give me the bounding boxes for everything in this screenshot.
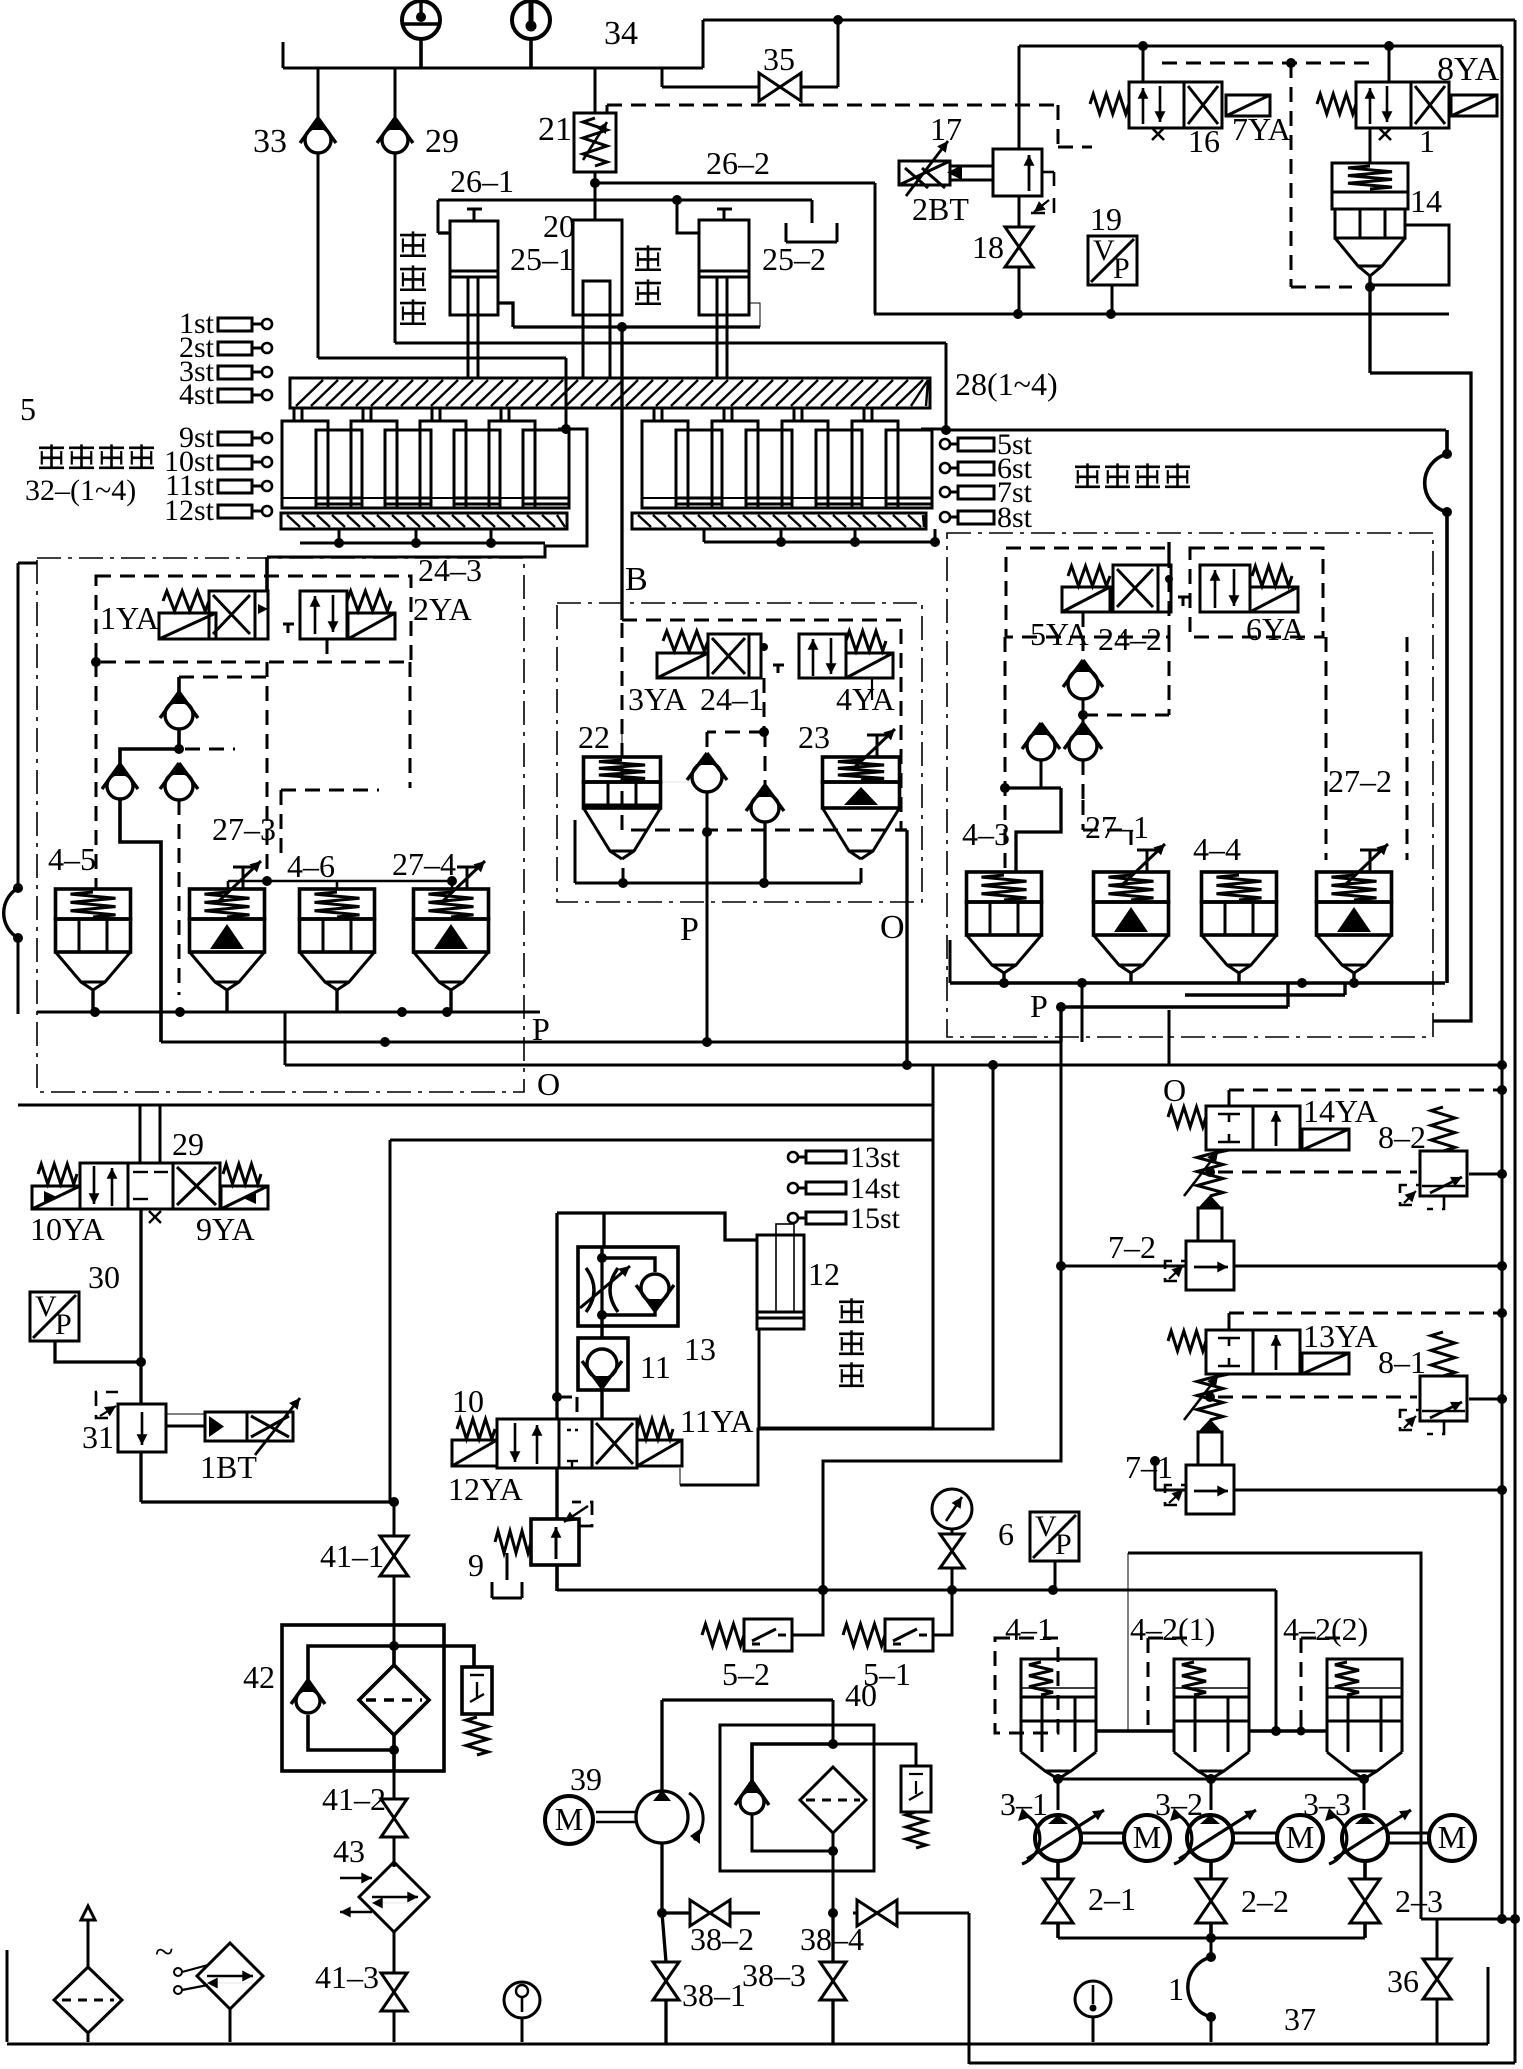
valve 2-3 bbox=[1350, 1861, 1443, 1938]
proportional pilot valve 2BT/17 bbox=[899, 111, 1054, 227]
valve 21 pilot relief bbox=[538, 68, 616, 183]
svg-text:6: 6 bbox=[998, 1516, 1014, 1552]
label eject cyl bbox=[839, 1298, 864, 1386]
svg-text:1: 1 bbox=[1168, 1971, 1184, 2007]
cartridge 4-6 bbox=[287, 848, 375, 990]
valve 24-3 dashed box bbox=[91, 576, 411, 667]
svg-text:2BT: 2BT bbox=[912, 191, 969, 227]
svg-text:5–2: 5–2 bbox=[722, 1656, 770, 1692]
wire 31 to rail1502 bbox=[141, 1452, 399, 1507]
tank gauge right bbox=[1075, 1981, 1111, 2042]
prop relief 7-1 pilot bbox=[1165, 1376, 1234, 1514]
valve 38-1 bbox=[653, 1913, 746, 2044]
label 7-1 bbox=[1125, 1449, 1173, 1485]
svg-text:M: M bbox=[1133, 1819, 1161, 1855]
small cushion cylinder bank (32-1..4) bbox=[282, 408, 569, 508]
svg-text:2–3: 2–3 bbox=[1395, 1883, 1443, 1919]
label 34 bbox=[604, 15, 638, 52]
solenoid valve 16 7YA bbox=[1090, 46, 1291, 159]
svg-text:4st: 4st bbox=[179, 378, 215, 411]
st labels 9-12 bbox=[164, 421, 272, 527]
dashed rail 8-2 top bbox=[1229, 1085, 1507, 1106]
pressure gauge 2 top bbox=[512, 1, 550, 68]
24-2 A-port wire bbox=[1167, 542, 1170, 565]
svg-text:O: O bbox=[537, 1066, 560, 1102]
svg-text:26–1: 26–1 bbox=[450, 163, 514, 199]
transducer 19 bbox=[1088, 201, 1137, 314]
svg-text:31: 31 bbox=[82, 1419, 114, 1455]
rod side line big bank bbox=[395, 343, 951, 435]
svg-text:29: 29 bbox=[425, 123, 459, 160]
pump suction rail bbox=[1053, 1774, 1369, 1810]
svg-text:B: B bbox=[625, 561, 648, 598]
left group boundary bbox=[37, 558, 524, 1092]
top-left supply rail bbox=[283, 20, 703, 68]
label big cushion cyl bbox=[1075, 463, 1190, 487]
svg-text:4–2(2): 4–2(2) bbox=[1283, 1611, 1368, 1647]
wire from 14 down right side bbox=[1368, 276, 1371, 373]
solenoid valve 1 8YA bbox=[1317, 46, 1500, 159]
O rail bbox=[285, 1012, 1507, 1102]
svg-text:18: 18 bbox=[972, 229, 1004, 265]
check valve chain left bbox=[102, 677, 267, 1042]
left pilot dashes bbox=[96, 662, 457, 995]
svg-text:5: 5 bbox=[20, 391, 36, 427]
cartridge 27-1 bbox=[1085, 809, 1169, 973]
valve 38-4 bbox=[800, 1900, 969, 2064]
bottom rail main bbox=[7, 1967, 1488, 2044]
st labels 5-8 bbox=[940, 428, 1033, 534]
svg-text:8–2: 8–2 bbox=[1378, 1119, 1426, 1155]
cartridge 23 bbox=[798, 719, 900, 859]
label zhugang (main cyl) bbox=[635, 245, 661, 304]
lift cylinder 25-1 bbox=[438, 209, 513, 378]
P rail bbox=[161, 1011, 1061, 1047]
O line middle bbox=[880, 830, 907, 1065]
wire 26-2 rail bbox=[590, 145, 875, 188]
svg-text:4–4: 4–4 bbox=[1193, 831, 1241, 867]
valve 10 12YA/11YA bbox=[448, 1383, 753, 1507]
pressure switch 5-2 bbox=[702, 1590, 823, 1692]
check valve B1 bbox=[687, 732, 764, 837]
wire 26-1 rail bbox=[438, 163, 812, 233]
cartridge 4-5 bbox=[48, 841, 131, 990]
cartridge 27-3 bbox=[190, 811, 277, 990]
svg-text:20: 20 bbox=[543, 208, 575, 244]
label 40 bbox=[845, 1677, 877, 1713]
main rail y1590 bbox=[557, 1585, 1281, 1736]
svg-text:P: P bbox=[532, 1011, 550, 1047]
valve 31 prop relief bbox=[82, 1362, 166, 1455]
check valve B2 bbox=[746, 732, 784, 883]
svg-text:P: P bbox=[1055, 1528, 1072, 1561]
svg-text:M: M bbox=[1286, 1819, 1314, 1855]
label 20 bbox=[543, 208, 575, 244]
eject block boundary bbox=[390, 1140, 933, 1502]
left cartridge bottom rail bbox=[37, 989, 540, 1017]
svg-text:O: O bbox=[1163, 1072, 1186, 1108]
rail left end bbox=[394, 1589, 700, 1591]
svg-text:30: 30 bbox=[88, 1259, 120, 1295]
under rail small bank bbox=[300, 529, 545, 548]
svg-text:4–6: 4–6 bbox=[287, 848, 335, 884]
svg-text:17: 17 bbox=[930, 111, 962, 147]
svg-text:1YA: 1YA bbox=[100, 600, 159, 636]
cartridge 4-2(2) bbox=[1283, 1611, 1402, 1779]
svg-text:2–1: 2–1 bbox=[1088, 1881, 1136, 1917]
svg-text:34: 34 bbox=[604, 15, 638, 52]
eject cylinder 12 bbox=[757, 1224, 840, 1329]
svg-text:11: 11 bbox=[640, 1349, 671, 1385]
svg-text:12: 12 bbox=[808, 1256, 840, 1292]
svg-text:36: 36 bbox=[1387, 1963, 1419, 1999]
svg-text:P: P bbox=[55, 1308, 72, 1341]
svg-text:37: 37 bbox=[1284, 2001, 1316, 2037]
svg-text:29: 29 bbox=[172, 1126, 204, 1162]
svg-text:32–(1~4): 32–(1~4) bbox=[25, 474, 136, 507]
pump 3-2 bbox=[1155, 1786, 1256, 1864]
svg-text:7–1: 7–1 bbox=[1125, 1449, 1173, 1485]
relief 8-1 bbox=[1378, 1332, 1467, 1434]
valve 41-1 bbox=[320, 1502, 408, 1645]
right group boundary bbox=[947, 533, 1433, 1037]
24-3 B-port wire bbox=[326, 639, 329, 662]
cart manifold bbox=[1096, 1718, 1327, 1736]
filter 40 outlet bbox=[828, 1851, 838, 1918]
right group stepped outlet lines bbox=[1056, 983, 1345, 1042]
label 25-1 bbox=[510, 241, 574, 277]
relief 9 bbox=[468, 1502, 592, 1598]
svg-text:25–2: 25–2 bbox=[762, 241, 826, 277]
left border wire bbox=[4, 563, 37, 1014]
pump 39 bbox=[596, 1790, 703, 1844]
svg-text:42: 42 bbox=[243, 1659, 275, 1695]
svg-text:11YA: 11YA bbox=[680, 1403, 753, 1439]
svg-text:24–3: 24–3 bbox=[418, 552, 482, 588]
svg-text:1: 1 bbox=[1419, 123, 1435, 159]
svg-text:13: 13 bbox=[684, 1331, 716, 1367]
main cyl bottom pipe bbox=[513, 322, 760, 620]
svg-text:4–5: 4–5 bbox=[48, 841, 96, 877]
svg-text:7–2: 7–2 bbox=[1108, 1229, 1156, 1265]
svg-text:19: 19 bbox=[1090, 201, 1122, 237]
svg-text:4–1: 4–1 bbox=[1005, 1611, 1053, 1647]
rod side line small bank bbox=[318, 358, 571, 434]
cooler 43 bbox=[333, 1833, 429, 1932]
svg-text:P: P bbox=[1113, 252, 1130, 285]
right pilot rail bbox=[1000, 637, 1131, 872]
pump 39 discharge bbox=[660, 1843, 663, 1913]
svg-text:28(1~4): 28(1~4) bbox=[955, 366, 1058, 402]
svg-text:7YA: 7YA bbox=[1232, 111, 1291, 147]
cartridge 4-4 bbox=[1193, 831, 1277, 973]
right border outer bbox=[1510, 20, 1520, 2063]
top rail to right section bbox=[703, 15, 1515, 25]
wire plate-right corner bbox=[0, 0, 1, 1]
bottom rail of pilot station bbox=[874, 309, 1449, 319]
filter 40 internals bbox=[735, 1744, 931, 1856]
B label bbox=[625, 561, 648, 598]
pressure gauge (accumulator charge) top-left bbox=[402, 1, 440, 68]
valve 29 10YA/9YA bbox=[30, 1126, 268, 1247]
middle dashed box bbox=[622, 620, 901, 830]
svg-text:15st: 15st bbox=[850, 1202, 901, 1235]
svg-text:M: M bbox=[1438, 1819, 1466, 1855]
dashed pilot line from 21 to 16 bbox=[607, 105, 1092, 147]
st labels 13-15 bbox=[788, 1141, 901, 1235]
svg-text:10: 10 bbox=[452, 1383, 484, 1419]
svg-text:27–4: 27–4 bbox=[392, 846, 456, 882]
svg-text:40: 40 bbox=[845, 1677, 877, 1713]
wire 36 top bbox=[1421, 1914, 1515, 1924]
dashed 7-2 to 8-2 bbox=[1218, 1169, 1507, 1179]
rail through 7-1 bbox=[1234, 1485, 1507, 1495]
cartridge 4-2(1) bbox=[1130, 1611, 1249, 1779]
svg-text:10YA: 10YA bbox=[30, 1211, 105, 1247]
main cylinder 20 bbox=[573, 183, 622, 378]
svg-text:1BT: 1BT bbox=[200, 1449, 257, 1485]
valve 2-2 bbox=[1196, 1861, 1289, 1938]
svg-text:V: V bbox=[1035, 1510, 1057, 1543]
label 5 bbox=[20, 391, 36, 427]
2BT supply from rail bbox=[1018, 46, 1021, 149]
cartridge 4-3 bbox=[962, 816, 1042, 973]
st labels 1-4 bbox=[179, 307, 272, 411]
7-1 supply bbox=[1155, 1461, 1186, 1490]
svg-text:3–1: 3–1 bbox=[1000, 1786, 1048, 1822]
svg-text:V: V bbox=[1093, 234, 1115, 267]
svg-text:24–2: 24–2 bbox=[1098, 621, 1162, 657]
right border inner bbox=[1501, 46, 1504, 1919]
dashed box 16-14 bbox=[1162, 58, 1370, 287]
svg-text:4–3: 4–3 bbox=[962, 816, 1010, 852]
valve 24-2 5YA/6YA bbox=[1030, 565, 1305, 657]
svg-text:9YA: 9YA bbox=[196, 1211, 255, 1247]
svg-text:41–2: 41–2 bbox=[322, 1781, 386, 1817]
svg-text:2YA: 2YA bbox=[413, 591, 472, 627]
svg-text:13YA: 13YA bbox=[1303, 1318, 1378, 1354]
svg-text:8YA: 8YA bbox=[1437, 51, 1500, 88]
cartridge valve 14 bbox=[1332, 128, 1449, 292]
motor M3 bbox=[1388, 1815, 1475, 1861]
flow control 13 bbox=[578, 1247, 716, 1367]
middle bottom rail bbox=[575, 733, 861, 888]
svg-text:P: P bbox=[1030, 988, 1048, 1024]
svg-text:5YA: 5YA bbox=[1030, 616, 1089, 652]
tank gauge left bbox=[504, 1982, 540, 2042]
svg-text:25–1: 25–1 bbox=[510, 241, 574, 277]
wire P to 7-x bbox=[818, 1042, 1160, 1595]
transducer 30 wire bbox=[55, 1341, 141, 1362]
wire cyl12 bottom bbox=[759, 1329, 933, 1428]
svg-text:~: ~ bbox=[155, 1934, 173, 1971]
svg-text:4YA: 4YA bbox=[836, 681, 895, 717]
bottom rail lower bbox=[969, 2062, 1515, 2065]
svg-text:6YA: 6YA bbox=[1246, 611, 1305, 647]
label 7-2 bbox=[1108, 1229, 1156, 1265]
svg-text:3–2: 3–2 bbox=[1155, 1786, 1203, 1822]
svg-text:12st: 12st bbox=[164, 494, 215, 527]
cartridge 22 bbox=[578, 719, 700, 859]
cartridge 27-2 bbox=[1317, 763, 1393, 973]
svg-text:4–2(1): 4–2(1) bbox=[1130, 1611, 1215, 1647]
svg-text:13st: 13st bbox=[850, 1141, 901, 1174]
valve 18 shutoff bbox=[972, 196, 1033, 314]
check valve 33 bbox=[253, 68, 336, 358]
svg-text:41–3: 41–3 bbox=[315, 1959, 379, 1995]
wire 26-2 drop bbox=[874, 183, 877, 314]
right inner border bbox=[1370, 373, 1471, 1021]
svg-text:26–2: 26–2 bbox=[706, 145, 770, 181]
big bank lower plate bbox=[632, 513, 926, 529]
svg-text:V: V bbox=[35, 1290, 57, 1323]
right dashed boxes bbox=[1006, 548, 1407, 860]
valve 2-1 bbox=[1043, 1861, 1136, 1938]
dashed rail 8-1 top bbox=[1229, 1308, 1507, 1330]
valve 24-1 3YA/4YA bbox=[628, 631, 895, 717]
pump 3-3 bbox=[1303, 1786, 1411, 1864]
svg-text:35: 35 bbox=[763, 41, 795, 77]
svg-text:3YA: 3YA bbox=[628, 681, 687, 717]
filter unit 42 bbox=[243, 1625, 492, 1771]
valve 14YA bbox=[1168, 1093, 1378, 1154]
breather filter bbox=[54, 1906, 122, 2042]
middle group boundary bbox=[557, 603, 922, 902]
rod side loop small bank bbox=[267, 429, 587, 557]
right group O wire bbox=[1168, 1010, 1171, 1065]
second rail y46 bbox=[1019, 41, 1502, 51]
svg-text:23: 23 bbox=[798, 719, 830, 755]
motor M1 bbox=[1081, 1815, 1170, 1861]
svg-text:27–1: 27–1 bbox=[1085, 809, 1149, 845]
svg-text:14st: 14st bbox=[850, 1172, 901, 1205]
cartridge 27-4 bbox=[392, 846, 489, 990]
cartridge 4-1 bbox=[995, 1611, 1096, 1779]
svg-text:M: M bbox=[555, 1801, 583, 1837]
pipes block bbox=[557, 1213, 757, 1419]
rail through 7-2 bbox=[1061, 1261, 1507, 1271]
svg-text:2–2: 2–2 bbox=[1241, 1883, 1289, 1919]
svg-text:P: P bbox=[680, 911, 699, 948]
motor 39 bbox=[545, 1761, 602, 1844]
valve 24-3 1YA/2YA bbox=[100, 552, 482, 639]
P line middle bbox=[680, 832, 707, 1042]
svg-text:24–1: 24–1 bbox=[700, 681, 764, 717]
label small cushion cyl bbox=[25, 444, 154, 507]
check valve 11 bbox=[578, 1338, 671, 1419]
svg-text:38–1: 38–1 bbox=[682, 1977, 746, 2013]
slide plate 28(1-4) bbox=[290, 378, 930, 408]
big cushion cylinder bank bbox=[642, 408, 932, 508]
mid rail y1105 bbox=[18, 1065, 933, 1140]
wire 29 to 30/31 bbox=[136, 1209, 146, 1367]
svg-text:8–1: 8–1 bbox=[1378, 1344, 1426, 1380]
svg-text:27–2: 27–2 bbox=[1328, 763, 1392, 799]
gauge at 5-1 bbox=[932, 1489, 972, 1590]
wire O to valve10 bbox=[680, 1065, 993, 1485]
valve 1BT bbox=[166, 1398, 300, 1485]
svg-text:12YA: 12YA bbox=[448, 1471, 523, 1507]
svg-text:43: 43 bbox=[333, 1833, 365, 1869]
right check chain bbox=[1022, 612, 1169, 800]
transducer 6 bbox=[998, 1510, 1079, 1590]
right cartridge bottom rail bbox=[950, 940, 1445, 1042]
suction bottom rail bbox=[1058, 1933, 1365, 1943]
pressure switch 5-1 bbox=[843, 1590, 952, 1692]
pump group box bbox=[1128, 1553, 1421, 1919]
svg-text:14: 14 bbox=[1410, 183, 1442, 219]
svg-text:33: 33 bbox=[253, 123, 287, 160]
O label right bbox=[1163, 1072, 1186, 1108]
pump 3-1 bbox=[1000, 1786, 1104, 1864]
label 28(1-4) bbox=[955, 366, 1058, 402]
svg-text:16: 16 bbox=[1188, 123, 1220, 159]
valve 38-2 bbox=[657, 1900, 760, 1957]
relief 8-2 bbox=[1378, 1107, 1467, 1209]
heater bbox=[155, 1934, 263, 2042]
valve 41-2 bbox=[322, 1770, 407, 1867]
dashed 7-1 to 8-1 bbox=[1218, 1394, 1507, 1404]
filter group 40 box bbox=[662, 1700, 874, 1871]
svg-text:27–3: 27–3 bbox=[212, 811, 276, 847]
svg-text:38–3: 38–3 bbox=[742, 1957, 806, 1993]
transducer 30 bbox=[30, 1259, 120, 1341]
small bank lower plate bbox=[281, 513, 567, 529]
svg-text:22: 22 bbox=[578, 719, 610, 755]
hose line to right border bbox=[946, 429, 1446, 432]
valve 38-3 bbox=[742, 1913, 846, 2044]
label 37 bbox=[1284, 2001, 1316, 2037]
label tishengang (lift cyl) bbox=[400, 231, 426, 324]
cylinder 25-2 bbox=[677, 200, 760, 378]
svg-text:3–3: 3–3 bbox=[1303, 1786, 1351, 1822]
prop relief 7-2 pilot bbox=[1165, 1152, 1234, 1290]
svg-text:38–2: 38–2 bbox=[690, 1921, 754, 1957]
svg-text:39: 39 bbox=[570, 1761, 602, 1797]
svg-text:21: 21 bbox=[538, 111, 572, 148]
svg-text:8st: 8st bbox=[997, 501, 1033, 534]
svg-text:41–1: 41–1 bbox=[320, 1538, 384, 1574]
svg-text:9: 9 bbox=[468, 1547, 484, 1583]
24-3 A-port wire bbox=[265, 557, 269, 591]
valve 35 shutoff bbox=[662, 20, 838, 101]
flex hose right bbox=[1425, 430, 1452, 983]
valve 36 bbox=[1387, 1919, 1451, 2044]
motor M2 bbox=[1233, 1815, 1323, 1861]
flex hose 1 bbox=[1168, 1938, 1216, 2042]
relief 9 tank bbox=[555, 1565, 559, 1591]
valve 13YA bbox=[1168, 1318, 1378, 1378]
valve 41-3 bbox=[315, 1932, 407, 2042]
valve 29 supply wires bbox=[140, 1105, 160, 1163]
svg-text:O: O bbox=[880, 909, 905, 946]
tank bracket vent 25-2 bbox=[786, 200, 837, 242]
svg-text:14YA: 14YA bbox=[1303, 1093, 1378, 1129]
24-1 pilot stubs bbox=[759, 678, 872, 737]
check valve 29 (top) bbox=[377, 68, 459, 343]
under rail big bank bbox=[704, 529, 940, 547]
label 25-2 bbox=[762, 241, 826, 277]
left bottom corner bbox=[6, 1950, 9, 2042]
valve10 wires bbox=[552, 1392, 577, 1519]
